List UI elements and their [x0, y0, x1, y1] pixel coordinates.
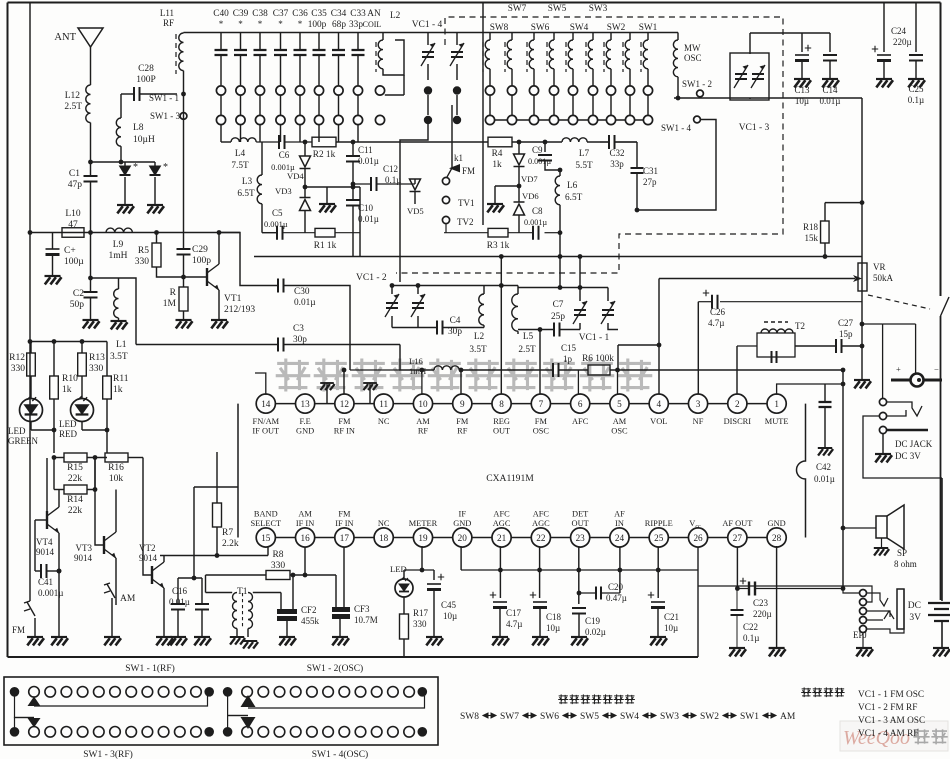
svg-text:C41: C41	[38, 577, 53, 587]
svg-text:0.01µ: 0.01µ	[358, 214, 379, 224]
trimmer adjust holes	[295, 86, 304, 95]
wire pin5 riser	[617, 370, 619, 395]
svg-text:0.001µ: 0.001µ	[528, 157, 551, 166]
label 可变电容	[801, 687, 844, 697]
svg-text:100µ: 100µ	[64, 257, 84, 267]
node SW1-1	[181, 92, 186, 97]
rail y=98 to DC jack riser	[674, 97, 862, 99]
switch FM	[29, 563, 31, 601]
svg-text:OSC: OSC	[684, 53, 702, 63]
svg-text:0.1µ: 0.1µ	[385, 175, 401, 185]
svg-text:1k: 1k	[62, 385, 72, 395]
svg-text:C6: C6	[279, 150, 290, 160]
capacitor C25 0.1u	[915, 3, 917, 53]
capacitor C17 4.7u	[499, 546, 501, 598]
svg-text:18: 18	[379, 533, 389, 543]
svg-text:CF3: CF3	[354, 604, 370, 614]
svg-text:L8: L8	[133, 123, 144, 133]
IC pin 19	[413, 528, 432, 547]
trimmer capacitor C35	[318, 33, 320, 51]
wires LED cathode join	[31, 429, 54, 431]
svg-text:OUT: OUT	[572, 519, 589, 528]
svg-text:SW1 - 4(OSC): SW1 - 4(OSC)	[312, 749, 368, 759]
svg-text:11: 11	[379, 399, 388, 409]
IC pin 20	[453, 528, 472, 547]
title 波段开关示意图	[558, 694, 635, 704]
IC pin 24	[610, 528, 629, 547]
svg-text:*: *	[258, 19, 263, 29]
svg-text:SW2: SW2	[607, 23, 626, 33]
IC pin 11	[374, 394, 393, 413]
capacitor C42 0.01u	[824, 384, 826, 402]
svg-text:C40: C40	[213, 9, 229, 19]
wire C1 to rail	[90, 182, 92, 233]
connector SW1-4 row1	[223, 687, 233, 697]
svg-text:25p: 25p	[551, 312, 565, 322]
svg-text:330: 330	[89, 364, 104, 374]
svg-text:8 ohm: 8 ohm	[894, 559, 917, 569]
capacitor C5 0.001u	[277, 226, 283, 240]
wire pin10 riser	[421, 370, 423, 395]
svg-text:C27: C27	[838, 318, 854, 328]
svg-text:0.1µ: 0.1µ	[743, 633, 759, 643]
IC pin 5	[610, 394, 629, 413]
svg-text:SW6: SW6	[540, 712, 559, 722]
IC pin 23	[571, 528, 590, 547]
bus wire to LED block	[30, 341, 107, 343]
capacitor C3 30p	[278, 338, 284, 352]
svg-text:27: 27	[733, 533, 743, 543]
svg-text:R4: R4	[492, 149, 503, 159]
svg-text:DC JACK: DC JACK	[895, 439, 933, 449]
connector SW1-3 row2	[10, 727, 20, 737]
IC pin 18	[374, 528, 393, 547]
svg-text:SW3: SW3	[660, 712, 679, 722]
svg-text:C8: C8	[532, 206, 543, 216]
band coil 8	[622, 42, 624, 72]
resistor R13 330	[81, 342, 83, 354]
ground (mixer right)	[494, 186, 496, 204]
svg-text:AN: AN	[367, 9, 381, 19]
diode VD7	[518, 142, 520, 154]
svg-text:25: 25	[654, 533, 664, 543]
inductor L7 5.5T	[562, 138, 587, 142]
svg-text:NC: NC	[378, 417, 390, 426]
svg-text:C15: C15	[561, 343, 577, 353]
ground (C45)	[426, 637, 443, 645]
svg-text:GREEN: GREEN	[8, 436, 38, 446]
watermark 杭州将睿科技有限公司	[276, 358, 653, 391]
svg-text:SW1 - 1(RF): SW1 - 1(RF)	[125, 663, 175, 674]
svg-text:1k: 1k	[492, 160, 502, 170]
resistor R4 1k	[488, 137, 512, 147]
wire ANT to L12	[90, 47, 92, 85]
svg-text:GND: GND	[296, 427, 314, 436]
ceramic filter CF3 10.7M	[332, 607, 350, 619]
svg-text:C23: C23	[753, 598, 769, 608]
svg-text:SW6: SW6	[531, 23, 550, 33]
band common bus	[490, 119, 648, 121]
power switch on VR	[941, 297, 950, 316]
svg-text:OSC: OSC	[611, 427, 628, 436]
junction line VD4	[305, 186, 360, 188]
svg-text:SW3: SW3	[589, 4, 608, 14]
capacitor C2 50p	[90, 233, 92, 293]
resistor R17 330	[400, 614, 409, 639]
svg-text:R7: R7	[222, 528, 233, 538]
svg-text:C37: C37	[273, 9, 289, 19]
capacitor C11 0.01u	[352, 142, 354, 156]
wiper triangles row1	[28, 697, 41, 707]
svg-text:DET: DET	[572, 510, 588, 519]
connector SW1-4 row2	[223, 727, 233, 737]
wire pin19 METER down	[421, 546, 423, 570]
svg-text:L12: L12	[65, 91, 81, 101]
svg-text:16: 16	[301, 533, 311, 543]
svg-text:330: 330	[135, 257, 150, 267]
ground (VT1 emitter)	[211, 320, 228, 328]
svg-text:BAND: BAND	[254, 510, 278, 519]
trimmer capacitor C34	[338, 33, 340, 51]
svg-text:DC 3V: DC 3V	[895, 451, 921, 461]
svg-text:FM: FM	[456, 417, 469, 426]
svg-text:3V: 3V	[909, 613, 921, 623]
svg-text:AM: AM	[416, 417, 430, 426]
band coil 9	[640, 42, 642, 72]
resistor R2 1k	[312, 137, 336, 147]
svg-text:2.5T: 2.5T	[64, 102, 82, 112]
diode VD5	[414, 179, 416, 184]
left bus wire	[29, 3, 31, 564]
svg-text:SW4: SW4	[620, 712, 639, 722]
svg-text:RF: RF	[418, 427, 429, 436]
svg-text:C26: C26	[710, 307, 726, 317]
svg-text:1k: 1k	[113, 385, 123, 395]
svg-text:IF OUT: IF OUT	[252, 427, 279, 436]
band coil 6	[585, 42, 587, 72]
svg-text:IF IN: IF IN	[296, 519, 314, 528]
speaker SP 8ohm	[843, 527, 876, 529]
IC pin 2	[728, 394, 747, 413]
svg-text:SW7: SW7	[500, 712, 519, 722]
wire C2 to L1 branch	[91, 278, 137, 345]
svg-text:455k: 455k	[301, 616, 320, 626]
svg-text:FM: FM	[338, 510, 351, 519]
svg-text:VD5: VD5	[407, 206, 424, 216]
capacitor C13 10u	[801, 33, 803, 52]
svg-text:CXA1191M: CXA1191M	[486, 473, 534, 484]
svg-text:SW1 - 2(OSC): SW1 - 2(OSC)	[307, 663, 363, 674]
ground (VT4 emitter)	[51, 637, 68, 645]
svg-text:23: 23	[576, 533, 586, 543]
svg-text:27p: 27p	[643, 177, 657, 187]
wire pin1 riser	[777, 384, 843, 395]
ground (VD1)	[117, 205, 134, 213]
svg-text:IF: IF	[459, 510, 467, 519]
svg-text:330: 330	[271, 561, 286, 571]
IC pin 17	[335, 528, 354, 547]
transistor VT4 9014	[47, 507, 59, 533]
potentiometer VR 50kA	[858, 263, 867, 291]
svg-text:220µ: 220µ	[893, 37, 912, 47]
svg-text:C17: C17	[506, 608, 522, 618]
ground (C13)	[794, 79, 811, 87]
svg-text:AF OUT: AF OUT	[722, 519, 752, 528]
svg-text:AFC: AFC	[572, 417, 589, 426]
wire T1 to CF2	[253, 592, 281, 594]
svg-text:10µ: 10µ	[795, 96, 809, 106]
capacitor C28 100P	[121, 93, 134, 95]
ground (VT2 emitter)	[156, 637, 173, 645]
svg-text:10µ: 10µ	[546, 623, 560, 633]
svg-text:10.7M: 10.7M	[354, 615, 378, 625]
bus under IC pins 20-26	[461, 569, 698, 571]
wire C31 loop	[637, 170, 716, 210]
ground (battery)	[933, 648, 950, 656]
capacitor C21 10u	[657, 546, 659, 598]
svg-text:C4: C4	[450, 316, 461, 326]
svg-text:28: 28	[772, 533, 782, 543]
svg-text:4.7µ: 4.7µ	[708, 318, 724, 328]
svg-text:GND: GND	[453, 519, 471, 528]
svg-text:VOL: VOL	[650, 417, 667, 426]
svg-text:AM: AM	[298, 510, 312, 519]
svg-text:22k: 22k	[68, 506, 83, 516]
svg-text:0.02µ: 0.02µ	[585, 627, 606, 637]
svg-text:VD3: VD3	[275, 186, 292, 196]
node (C31 loop)	[635, 208, 640, 213]
svg-text:33p: 33p	[610, 159, 624, 169]
svg-text:R17: R17	[413, 608, 429, 618]
transistor VT2 9014	[152, 562, 164, 588]
svg-text:FN/AM: FN/AM	[253, 417, 280, 426]
wire VC1-4 into mixer	[400, 124, 428, 282]
junction line VD6	[495, 185, 519, 187]
svg-text:AGC: AGC	[532, 519, 550, 528]
band coil 1	[482, 42, 484, 72]
svg-text:15p: 15p	[839, 329, 853, 339]
rail wire left	[30, 232, 240, 234]
ground (C24)	[876, 79, 893, 87]
svg-text:DISCRI: DISCRI	[724, 417, 752, 426]
svg-text:OUT: OUT	[493, 427, 510, 436]
svg-text:R14: R14	[67, 495, 83, 505]
svg-text:L5: L5	[523, 332, 534, 342]
svg-text:47p: 47p	[68, 180, 83, 190]
wire L12 to C1	[90, 123, 92, 176]
svg-text:L4: L4	[235, 149, 246, 159]
svg-text:100p: 100p	[192, 256, 211, 266]
capacitor C30 0.01u	[278, 279, 284, 293]
band coil 3	[526, 42, 528, 72]
IC pin 28	[767, 528, 786, 547]
svg-text:METER: METER	[409, 519, 438, 528]
svg-text:7.5T: 7.5T	[231, 161, 249, 171]
wire x=843 riser	[842, 370, 844, 589]
svg-text:C39: C39	[233, 9, 249, 19]
ground (CF2)	[279, 637, 296, 645]
svg-text:ANT: ANT	[54, 32, 76, 43]
IC pin 22	[531, 528, 550, 547]
IC pin 6	[571, 394, 590, 413]
svg-text:SW1 - 4: SW1 - 4	[661, 123, 691, 133]
watermark WeeQoo	[840, 721, 948, 751]
svg-text:5: 5	[617, 399, 622, 409]
inner mixer rail right	[444, 232, 488, 234]
svg-text:RF IN: RF IN	[334, 427, 355, 436]
wire C3 branch	[136, 344, 278, 346]
svg-text:SW5: SW5	[548, 4, 567, 14]
svg-text:C21: C21	[664, 612, 679, 622]
wire to pin9	[460, 370, 462, 394]
capacitor C6 0.001u (series)	[256, 141, 279, 143]
variable capacitor VC1-3	[730, 53, 769, 100]
svg-text:0.1µ: 0.1µ	[908, 95, 924, 105]
IC pin 16	[295, 528, 314, 547]
svg-text:VC1 - 1: VC1 - 1	[579, 333, 610, 343]
svg-text:AF: AF	[614, 510, 625, 519]
wire pin16 riser	[304, 546, 306, 575]
svg-text:1: 1	[774, 399, 779, 409]
svg-text:C32: C32	[609, 148, 624, 158]
diode VD2	[154, 162, 156, 166]
svg-text:R13: R13	[89, 353, 105, 363]
svg-text:4.7µ: 4.7µ	[506, 619, 522, 629]
VR wiper arrow	[659, 278, 855, 280]
variable capacitor VC1-2b	[411, 294, 425, 317]
DC jack symbol	[891, 379, 942, 382]
IC pin 15	[256, 528, 275, 547]
ground (mixer left)	[326, 187, 328, 204]
ground (C14)	[822, 79, 839, 87]
svg-text:C5: C5	[272, 208, 283, 218]
diode VD3	[300, 198, 311, 211]
svg-text:24: 24	[615, 533, 625, 543]
IC pin 25	[649, 528, 668, 547]
resistor R5 330	[156, 233, 158, 244]
svg-text:100p: 100p	[308, 20, 327, 30]
wire pin3 NF riser (C26 loop)	[697, 302, 699, 395]
svg-text:C2: C2	[73, 289, 84, 299]
wiper triangles row2	[28, 718, 41, 728]
svg-text:RED: RED	[59, 429, 78, 439]
svg-text:L10: L10	[65, 209, 81, 219]
svg-text:330: 330	[413, 619, 427, 629]
svg-text:AM: AM	[780, 712, 796, 722]
svg-text:26: 26	[693, 533, 703, 543]
svg-text:C+: C+	[64, 246, 76, 256]
bottom mixer rail	[254, 256, 862, 258]
resistor R3 1k	[488, 228, 508, 237]
rotor contact dots	[424, 86, 432, 94]
svg-text:*: *	[238, 19, 243, 29]
wire rail down VR column	[861, 98, 863, 380]
svg-text:10µ: 10µ	[443, 611, 457, 621]
resistor R 1M	[179, 287, 188, 311]
ground (EPJ)	[862, 633, 864, 649]
svg-text:30p: 30p	[448, 327, 462, 337]
ground (pin28)	[776, 546, 778, 648]
svg-text:C31: C31	[643, 166, 658, 176]
IC pin 14	[256, 394, 275, 413]
trimmer adjust holes	[216, 86, 225, 95]
AN coil column	[375, 86, 384, 95]
capacitor C27 15p	[795, 345, 836, 347]
svg-text:15k: 15k	[805, 233, 819, 243]
svg-text:30p: 30p	[293, 335, 307, 345]
band coil 2	[504, 42, 506, 72]
svg-text:6: 6	[578, 399, 583, 409]
transistor VT1 212/193	[185, 276, 207, 278]
LED GREEN	[30, 376, 32, 399]
capacitor C10 0.01u	[346, 200, 360, 206]
capacitor C8 0.001u (series)	[533, 226, 539, 240]
battery DC 3V	[941, 478, 943, 601]
svg-text:L6: L6	[567, 181, 578, 191]
svg-text:VT2: VT2	[139, 543, 156, 553]
svg-text:SW1 - 3(RF): SW1 - 3(RF)	[83, 749, 133, 759]
svg-text:10k: 10k	[109, 474, 124, 484]
border frame	[8, 2, 941, 4]
bus wire to pin15	[160, 555, 268, 557]
IC pin 8	[492, 394, 511, 413]
svg-text:*: *	[133, 162, 138, 173]
svg-text:C12: C12	[383, 164, 398, 174]
ground (SP)	[874, 548, 889, 556]
svg-text:IN: IN	[615, 519, 624, 528]
svg-text:22k: 22k	[68, 474, 83, 484]
svg-text:R18: R18	[803, 222, 819, 232]
resistor R15 22k	[54, 457, 64, 459]
resistor R10 1k	[53, 342, 55, 377]
wire osc tank to pin7	[539, 330, 541, 395]
ground (C+)	[45, 276, 62, 284]
svg-text:CF2: CF2	[301, 605, 317, 615]
capacitor C22 0.1u	[731, 610, 744, 615]
svg-text:k1: k1	[454, 153, 463, 163]
capacitor C12 0.1u	[371, 177, 377, 191]
svg-text:RIPPLE: RIPPLE	[645, 519, 673, 528]
ground (T1 primary)	[230, 637, 245, 645]
wire TV2 stem	[445, 224, 447, 233]
ground (AM switch, VT3)	[104, 637, 121, 645]
svg-text:EPJ: EPJ	[853, 630, 868, 640]
svg-text:0.01µ: 0.01µ	[294, 298, 316, 308]
capacitor C7 25p	[518, 329, 554, 331]
svg-text:20: 20	[458, 533, 468, 543]
svg-text:VR: VR	[873, 262, 886, 272]
svg-text:L2: L2	[390, 11, 401, 21]
svg-text:9: 9	[460, 399, 465, 409]
switch AM	[104, 583, 115, 598]
svg-text:15: 15	[261, 533, 271, 543]
svg-text:C16: C16	[172, 586, 188, 596]
ground (L1)	[111, 321, 128, 329]
IC pin 27	[728, 528, 747, 547]
DC jack bracket	[862, 323, 883, 325]
svg-text:C29: C29	[192, 245, 208, 255]
svg-text:LED: LED	[8, 426, 26, 436]
svg-text:12: 12	[340, 399, 350, 409]
variable capacitor VC1-1a	[573, 301, 587, 324]
svg-text:C36: C36	[292, 9, 308, 19]
svg-text:19: 19	[418, 533, 428, 543]
diode VD6	[514, 202, 525, 215]
wire pin20 riser	[460, 546, 462, 570]
capacitor C1 47p	[84, 176, 98, 182]
svg-text:VC1 - 3: VC1 - 3	[739, 123, 770, 133]
capacitor C31 27p	[636, 142, 638, 168]
